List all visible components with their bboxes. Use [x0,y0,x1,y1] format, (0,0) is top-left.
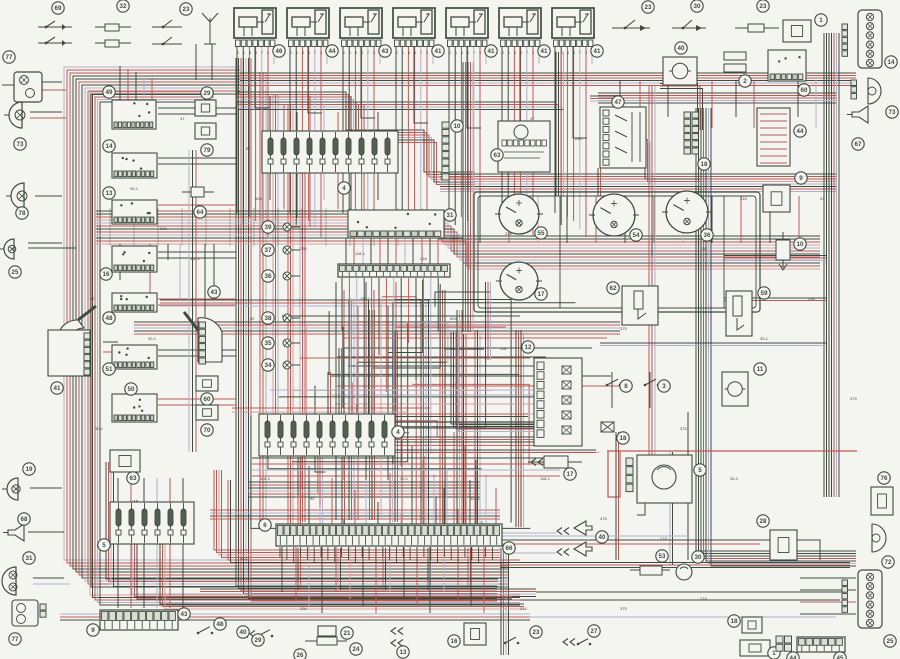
svg-text:29: 29 [204,90,211,97]
wire bundle band y514 lower [210,510,500,519]
connector block 49 [112,100,156,129]
wire bundle right trunk x830 [824,33,839,497]
label 3 [658,380,670,392]
label 40 [675,42,687,54]
switch 41 pins [84,333,90,375]
svg-text:44: 44 [790,655,797,659]
wire bundle corner nest 2 [106,462,498,587]
label 73 left [14,138,26,150]
component 2 resistors [724,52,746,72]
wire bundle bottom run continuation [500,563,850,568]
svg-text:67: 67 [855,141,862,148]
svg-text:72: 72 [885,559,892,566]
label 70 mid [201,424,213,436]
wire stub to lamp 25 [28,247,76,249]
svg-text:10: 10 [454,123,461,130]
label 29 [201,87,213,99]
connector 44b [776,636,792,651]
svg-text:31: 31 [447,212,454,219]
component 59 box [726,291,752,336]
wire wire dark h y316 [282,315,520,317]
svg-text:26: 26 [297,652,304,659]
svg-text:375: 375 [620,606,627,611]
svg-text:41: 41 [54,385,61,392]
gauge 55 [495,194,543,234]
svg-text:236: 236 [300,606,307,611]
svg-text:1: 1 [508,51,510,55]
fuse box upper [262,131,398,173]
wire bundle cluster down to strip [516,330,524,527]
svg-text:40: 40 [678,45,685,52]
label 60 [798,84,810,96]
svg-text:63: 63 [494,152,501,159]
component 18c [742,617,762,633]
label for switch 69 [52,2,64,14]
svg-text:63: 63 [130,475,137,482]
svg-text:118-1: 118-1 [470,496,481,501]
svg-text:66: 66 [506,545,513,552]
wire stub lamp25 b [28,242,62,244]
wire bundle right trunk x700 [696,108,856,566]
svg-text:30-1: 30-1 [95,426,104,431]
svg-text:3: 3 [426,51,428,55]
svg-text:48: 48 [106,315,113,322]
svg-text:118: 118 [500,346,507,351]
svg-text:9: 9 [91,627,95,634]
label 59 [758,287,770,299]
svg-text:25: 25 [887,638,894,645]
wire stub block77 a [42,81,62,83]
svg-text:16: 16 [103,271,110,278]
svg-text:92: 92 [246,146,251,151]
svg-text:9: 9 [799,175,803,182]
svg-text:218: 218 [420,256,427,261]
svg-text:29: 29 [255,637,262,644]
wires into connector 25 [800,578,856,614]
wire bundle fusebox4 to strip b [320,457,323,524]
connector 31 [348,210,444,238]
svg-text:118-1: 118-1 [260,476,271,481]
terminal strip 66 [276,524,502,546]
svg-text:5: 5 [520,51,522,55]
wires center column dense [336,282,396,520]
label 8 [620,380,632,392]
label 47 [612,96,624,108]
wire bundle red trunk x262 [260,72,266,525]
headlamp 78 left [6,183,27,209]
label for fuse box 5 left [98,539,110,551]
label 36 [262,270,274,282]
svg-text:73: 73 [17,141,24,148]
svg-text:60: 60 [801,87,808,94]
wire bundle mid verticals x372 [370,310,375,520]
relay K1 [234,8,276,55]
svg-text:5: 5 [255,51,257,55]
svg-text:44: 44 [797,128,804,135]
wire bundle band y326 mid [134,322,620,334]
ignition 43 pins [199,322,206,364]
terminal strip 9 [100,610,178,630]
connector 45b [797,637,845,652]
label 28 [757,515,769,527]
svg-text:62: 62 [610,285,617,292]
svg-text:4: 4 [396,429,400,436]
wires strip66 down fan [282,547,484,613]
label for gauge 17 [535,288,547,300]
junction ticks band226 [110,208,422,246]
label 49 [103,86,115,98]
component 76 [871,487,893,515]
label 17 [564,468,576,480]
wire bundle nested mesh D [328,372,596,453]
wire stub to lamp31 [33,577,64,579]
label 45b [834,652,846,659]
svg-text:69: 69 [55,5,62,12]
svg-text:118: 118 [700,246,707,251]
wire wire ignition k [204,244,206,318]
component 56 [464,623,486,645]
wire bundle staircase relays to cluster [236,92,475,185]
svg-text:2: 2 [237,51,239,55]
component 18b sym [601,422,614,432]
connector 25 pins [842,580,848,612]
wire wire red over fusebox4 [232,407,430,409]
wire bundle corner nest red [214,470,500,558]
connector 10 strip [442,122,449,180]
svg-text:8: 8 [624,383,628,390]
svg-text:47: 47 [180,116,185,121]
svg-text:37: 37 [265,247,272,254]
wire lamp 36 stub [291,275,300,277]
label 53 [656,550,668,562]
wire verticals cluster-band [480,196,799,243]
label 79 [201,144,213,156]
svg-text:54: 54 [633,232,640,239]
component 18 strip [684,112,699,154]
connector 77 pins [40,604,46,617]
relay K6 [499,8,541,55]
component 1b [740,640,770,656]
svg-text:34: 34 [265,362,272,369]
label 1b [768,647,780,659]
svg-text:40: 40 [599,534,606,541]
label 37 [262,244,274,256]
wire bundle red right x652 [649,86,655,470]
svg-text:3: 3 [267,51,269,55]
wire bundle mid verticals x352 [349,300,354,520]
svg-text:375: 375 [600,516,607,521]
switch 23 bottom [504,637,520,644]
component 70 mid [196,405,218,420]
headlamp 19 [2,478,20,500]
wire bundle left trunk + bottom run [64,67,508,587]
wire verticals band-down-left [120,244,214,330]
pin-group label for relay K6 [538,45,550,57]
label 56 [448,635,460,647]
svg-text:12: 12 [525,344,532,351]
wire bundle band y184 cluster top [440,174,836,192]
label 16 block [100,268,112,280]
component 5 wiper [637,455,692,503]
svg-text:31: 31 [26,555,33,562]
wire bundle trunk x240 vertical [236,58,497,601]
relay K4 [393,8,435,55]
label 63 center [491,149,503,161]
svg-text:59: 59 [761,290,768,297]
label 67 [852,138,864,150]
component 28 box [770,530,797,560]
svg-text:218: 218 [520,606,527,611]
wire bottom run cont 2 [520,599,840,601]
wires fusebox upper feeds [270,96,378,227]
svg-text:47: 47 [820,196,825,201]
svg-text:55: 55 [538,230,545,237]
connector 14 right edge [858,10,882,68]
label 73 right [886,106,898,118]
label 50 block [125,383,137,395]
label for gauge 36 [701,229,713,241]
wires from connector 31 strip [342,278,438,478]
svg-text:3: 3 [662,383,666,390]
wire bundle center verticals to strip C [457,310,462,527]
wires strip66 up fan [286,456,482,524]
svg-text:7: 7 [473,51,475,55]
svg-text:78: 78 [19,210,26,217]
label 66 [503,542,515,554]
connector 73r pins [851,80,857,99]
label 43 [208,286,220,298]
wire bundle strip down fanout e [468,548,471,590]
wire wire dark h y428 [290,427,545,429]
wire bundle strip down fanout d [428,548,431,590]
wire stub to lamp 73 b [30,117,66,119]
svg-text:40: 40 [240,629,247,636]
svg-text:5: 5 [698,467,702,474]
wire stub to lamp 73 [30,111,62,113]
label 41 [51,382,63,394]
svg-text:6: 6 [263,522,267,529]
wire wire right vertical C [687,412,689,560]
svg-text:236: 236 [300,246,307,251]
svg-text:2: 2 [502,51,504,55]
strip below 31 [338,264,450,277]
svg-text:1: 1 [243,51,245,55]
wire horn wires [500,532,556,534]
wire mesh center [251,280,600,532]
indicator lamp 39 [283,223,291,231]
wire wire dark h y422 [300,421,560,423]
svg-text:13: 13 [106,190,113,197]
wire wire red h y358 [300,357,530,359]
svg-text:3: 3 [320,51,322,55]
label 32 [117,0,129,12]
component 44 box [757,108,790,166]
label 60 mid [201,393,213,405]
svg-text:1: 1 [402,51,404,55]
wire wire strip to right a [502,535,688,537]
wire bundle cluster left trunk [463,62,473,332]
svg-text:604: 604 [255,196,262,201]
wire bundle wires to ignition [189,150,196,452]
speaker 67 [847,106,868,123]
svg-text:77: 77 [12,636,19,643]
switch 3 [644,379,660,386]
wire lamp 38 stub [291,317,300,319]
svg-text:4: 4 [342,185,346,192]
svg-text:118-1: 118-1 [540,476,551,481]
svg-text:28: 28 [760,518,767,525]
label 44 [794,125,806,137]
component 9 right [763,185,790,212]
label for fuse box 4 lower [392,426,404,438]
speaker 68 [3,524,24,541]
pin-group label for relay K3 [379,45,391,57]
svg-text:2: 2 [449,51,451,55]
label 2 [739,75,751,87]
pin-group label for relay K4 [432,45,444,57]
label 39 [262,221,274,233]
wire bundle nested mesh C [366,300,528,417]
label 27 bottom [588,625,600,637]
wire bundle nested mesh A [451,332,582,432]
svg-text:10: 10 [797,241,804,248]
svg-text:49: 49 [106,89,113,96]
svg-text:30-1: 30-1 [730,476,739,481]
svg-text:19: 19 [26,466,33,473]
component 62 box [622,286,658,325]
connector block 50 [112,394,157,422]
svg-text:8: 8 [355,51,357,55]
component 5 pins [626,458,633,492]
label 48 bottom [214,618,226,630]
svg-text:17: 17 [567,471,574,478]
svg-text:7: 7 [314,51,316,55]
switch 69 [38,21,72,46]
wires above strip h [252,458,560,476]
svg-text:23: 23 [645,4,652,11]
svg-text:70: 70 [204,427,211,434]
svg-text:7: 7 [579,51,581,55]
label 23 bottom [530,626,542,638]
label 31 bl [23,552,35,564]
wire bundle top right corner nest [660,84,703,131]
horn arrows upper [557,528,569,535]
svg-text:7: 7 [526,51,528,55]
component 29a [195,100,216,116]
svg-text:8: 8 [302,51,304,55]
label 30 br [692,551,704,563]
component 63 bl [110,450,140,472]
label 31 [444,209,456,221]
svg-text:14: 14 [888,59,895,66]
label 13 bottom [397,646,409,658]
wire bundle cluster left trunk lower [464,334,467,524]
svg-text:43: 43 [382,48,389,55]
svg-text:27: 27 [591,628,598,635]
label 35 [262,337,274,349]
fuse box 4 lower [259,414,395,456]
connector 77 block [2,72,42,102]
svg-text:2: 2 [396,51,398,55]
svg-text:23: 23 [183,6,190,13]
label 6 strip [259,519,271,531]
switch 29 bottom [257,630,274,638]
svg-text:375: 375 [620,326,627,331]
wires fusebox5 links [118,478,183,608]
component 1 top [783,20,811,42]
svg-text:3: 3 [479,51,481,55]
label 68 [18,513,30,525]
label for fuse box upper [338,182,350,194]
component 60 block [768,50,806,81]
relay K7 [552,8,594,55]
relay K2 [287,8,329,55]
wire number labels [90,116,857,611]
wire bundle red trunk x274 [273,95,278,455]
fuse box 5 left [110,502,194,544]
headlamp 73 left [4,102,25,128]
svg-text:30-1: 30-1 [130,186,139,191]
svg-text:73: 73 [889,109,896,116]
wire red loop right [607,450,857,452]
svg-text:3: 3 [532,51,534,55]
svg-text:5: 5 [308,51,310,55]
wire stub to lamp 78 [35,195,62,197]
label 18b [617,432,629,444]
svg-text:35: 35 [265,340,272,347]
component 60 mid [196,376,218,391]
lamp 25 left [0,239,16,259]
switch 27 arrows [563,639,575,646]
wire bundle mid verticals x395 [393,330,398,522]
wire lamp 35 stub [291,342,300,344]
label for gauge 54 [630,229,642,241]
svg-text:30-1: 30-1 [400,476,409,481]
component 12 block [534,358,582,446]
svg-text:118-1: 118-1 [360,296,371,301]
wire horn wires b [500,552,556,554]
svg-text:8: 8 [461,51,463,55]
label 63 bl [127,472,139,484]
wire bundle wires cluster-right h2 [724,298,826,301]
label 23 top-left [180,3,192,15]
svg-text:16: 16 [451,638,458,645]
label 24 bottom [350,643,362,655]
wire bundle cluster downleft [486,282,491,360]
wire bundle strip down fanout b [338,548,341,590]
svg-text:2: 2 [343,51,345,55]
gauge 54 [589,194,639,236]
svg-text:8: 8 [408,51,410,55]
wire bundle center verticals to strip A [421,300,429,527]
svg-text:13: 13 [400,649,407,656]
svg-text:5: 5 [361,51,363,55]
wire bundle staircase right [590,96,700,184]
label 10 flasher [794,238,806,250]
label 18 [698,158,710,170]
wire drops relay module 3 [343,46,380,237]
wire bundle center verticals to strip B [440,290,445,527]
indicator lamp 34 [283,361,291,369]
wire drops relay module 7 [555,46,592,237]
svg-text:5: 5 [467,51,469,55]
wire wire antenna drop a [195,44,197,80]
svg-text:5: 5 [573,51,575,55]
svg-text:30: 30 [695,554,702,561]
wire bundle center verticals to strip D [475,330,480,527]
label 11 [754,363,766,375]
svg-text:47: 47 [615,99,622,106]
